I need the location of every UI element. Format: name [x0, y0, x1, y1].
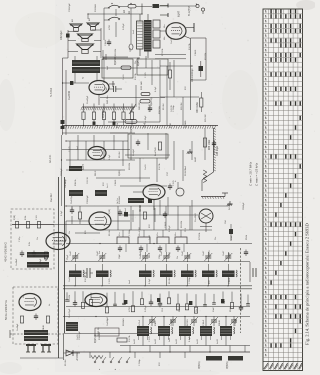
svg-text:C1540pF: C1540pF: [69, 3, 71, 12]
svg-text:C 560p: C 560p: [189, 276, 191, 284]
svg-text:Tr: Tr: [82, 77, 85, 79]
wire AVC rail: [66, 306, 250, 308]
IF transformer T4b: [95, 190, 107, 196]
clutter y215: [118, 200, 197, 230]
label row1: [87, 95, 109, 104]
shield wall left: [59, 177, 65, 358]
wire verticals y206-230: [118, 206, 190, 230]
svg-text:6К4П: 6К4П: [229, 252, 231, 258]
svg-text:C 125: C 125: [149, 336, 151, 342]
svg-text:Cω: Cω: [196, 308, 198, 312]
svg-text:P(W.K): P(W.K): [198, 361, 201, 369]
resistor bank: [82, 104, 134, 126]
svg-text:S-7244: S-7244: [49, 88, 53, 97]
svg-text:4Ω: 4Ω: [89, 18, 91, 21]
chassis shield bar: [61, 126, 218, 129]
svg-text:C min = 10.7 MHz: C min = 10.7 MHz: [249, 161, 253, 186]
label CT2: [97, 250, 99, 256]
table row numbers: [265, 10, 267, 356]
svg-text:R 470k: R 470k: [189, 42, 191, 50]
svg-text:R7220k: R7220k: [199, 232, 201, 240]
label L12: [176, 338, 178, 344]
svg-text:R2215k: R2215k: [69, 294, 71, 302]
labels detector row: [107, 316, 237, 326]
trimmer capacitor CT2: [98, 252, 106, 262]
wire horizontals topmid: [103, 58, 199, 97]
svg-text:Cα10nF: Cα10nF: [16, 258, 18, 266]
converter shield enclosure: [11, 209, 54, 269]
svg-text:P(W): P(W): [14, 215, 16, 220]
IF coil L8: [69, 166, 82, 171]
labels band y180: [65, 176, 119, 214]
svg-text:R18 1k: R18 1k: [75, 178, 77, 186]
svg-text:R 470k: R 470k: [129, 334, 131, 342]
wire V4 cathode stubs: [160, 197, 168, 215]
trimmer capacitor CT5: [183, 252, 191, 262]
svg-text:Cω47: Cω47: [182, 250, 184, 256]
capacitor C33: [108, 86, 122, 92]
lower-left interior tint: [0, 200, 55, 360]
oscillator coil L11: [158, 317, 173, 346]
svg-text:Cω 05µF: Cω 05µF: [145, 115, 147, 124]
IF transformer T2: [96, 264, 111, 286]
svg-text:C1840: C1840: [165, 221, 167, 228]
antenna stand left: [26, 344, 36, 352]
loudspeaker LS4: [77, 44, 94, 54]
svg-text:P(W6.R): P(W6.R): [151, 97, 153, 106]
IF transformer T7: [222, 264, 237, 286]
fuse F1 2A: [120, 5, 152, 15]
output transformer winding a: [72, 60, 100, 66]
svg-text:R 470k: R 470k: [135, 72, 137, 80]
svg-text:C 560p: C 560p: [139, 358, 141, 366]
switch box A: [102, 59, 133, 78]
wire rectifier loop: [155, 38, 206, 110]
svg-text:R25 1W: R25 1W: [205, 114, 207, 122]
label fmax: [255, 162, 259, 186]
svg-text:0.05µF: 0.05µF: [145, 305, 147, 312]
svg-text:≈P100Ω: ≈P100Ω: [76, 352, 79, 361]
svg-text:R 470k: R 470k: [159, 162, 161, 170]
svg-text:R33 1kΩ: R33 1kΩ: [141, 81, 143, 90]
band coil staples: [117, 230, 187, 252]
wire verticals topmid: [104, 56, 183, 125]
small circle component: [173, 180, 184, 196]
svg-text:Cω 4σJ: Cω 4σJ: [50, 193, 53, 202]
labels converter box: [19, 236, 39, 246]
shield partition vertical: [201, 128, 228, 199]
label Gr-CF: [48, 154, 52, 163]
mains plug: [196, 4, 205, 15]
dashed antenna wire: [10, 330, 63, 338]
capacitor C47: [168, 184, 172, 191]
svg-text:P(W1.R): P(W1.R): [95, 334, 97, 343]
capacitor blob: [70, 81, 73, 85]
svg-text:R30 1MΩ: R30 1MΩ: [196, 102, 199, 113]
svg-text:C 125: C 125: [69, 146, 71, 152]
oscillator coil L12: [179, 317, 194, 346]
IF transformer T1: [69, 264, 84, 286]
svg-text:W1.R: W1.R: [95, 170, 97, 176]
svg-text:0.05µF: 0.05µF: [123, 23, 125, 30]
row2 trimmers: [148, 316, 238, 326]
tuning gang dashed boundary: [240, 248, 242, 333]
label V4: [139, 204, 142, 212]
svg-text:C 125: C 125: [109, 278, 111, 284]
ferrite rod winding upper: [24, 330, 48, 335]
svg-text:Cω125pF: Cω125pF: [71, 194, 73, 204]
svg-text:P(W2): P(W2): [169, 252, 171, 258]
ground mid: [187, 149, 193, 154]
svg-text:C 125: C 125: [173, 180, 175, 186]
loudspeaker LS3: [78, 34, 93, 42]
svg-text:Rω27kΩ: Rω27kΩ: [155, 147, 157, 156]
svg-text:R2215k: R2215k: [115, 48, 117, 56]
capacitor C35: [148, 106, 152, 113]
svg-text:R121kΩ: R121kΩ: [95, 4, 97, 12]
table plus marks: [271, 9, 300, 347]
signal table grid: [263, 9, 303, 371]
svg-text:0.1µF: 0.1µF: [109, 154, 111, 160]
label Tr retea: [188, 6, 191, 16]
svg-text:C930pF: C930pF: [61, 168, 63, 176]
wire row y206: [66, 205, 228, 207]
svg-text:C 125: C 125: [145, 72, 147, 78]
antenna shield enclosure: [13, 287, 58, 344]
detector diode D1: [64, 350, 81, 356]
label V1: [45, 255, 48, 261]
svg-text:R36 10kΩ: R36 10kΩ: [209, 139, 211, 150]
dark blobs under resistors: [93, 122, 116, 125]
antenna stand right: [41, 344, 51, 352]
svg-text:P(W.S): P(W.S): [226, 361, 229, 369]
svg-text:P(W.R): P(W.R): [131, 125, 133, 133]
oscillator coil L14: [220, 317, 235, 346]
svg-text:6К4П: 6К4П: [195, 156, 197, 162]
wire mid rail 2: [66, 261, 250, 263]
svg-text:Cω2µF: Cω2µF: [133, 148, 135, 156]
detector blobs: [124, 298, 224, 305]
svg-text:2×30: 2×30: [169, 122, 172, 128]
labels band y100: [139, 102, 207, 124]
svg-text:0.1µF: 0.1µF: [155, 86, 157, 92]
loudspeaker LS2: [87, 23, 99, 30]
wire row y230: [75, 230, 200, 233]
wire mid rail: [66, 243, 252, 245]
IF transformer T4a: [69, 190, 83, 196]
IF amp tube V2: [88, 147, 106, 160]
trimmer capacitor CT3: [141, 252, 149, 262]
potentiometer P1: [198, 356, 222, 369]
svg-text:Lm: Lm: [157, 125, 159, 128]
potentiometer P2: [226, 356, 243, 369]
svg-text:Cω: Cω: [37, 237, 39, 240]
wire tube V5 leads: [63, 81, 116, 105]
wire bottom rail: [66, 351, 250, 353]
potentiometer arrow: [129, 104, 136, 114]
label CT3: [140, 250, 142, 256]
label R30: [196, 102, 199, 113]
svg-text:C 560p: C 560p: [129, 228, 131, 236]
wire speaker frame: [68, 4, 142, 59]
tone control box: [128, 125, 168, 158]
svg-text:C 560p: C 560p: [173, 104, 175, 112]
wire frame bottom: [64, 334, 161, 361]
svg-text:Cω125pF: Cω125pF: [69, 308, 71, 318]
trimmer capacitor CT6: [204, 252, 212, 262]
RF tube V0: [19, 294, 41, 311]
svg-text:Cω: Cω: [69, 231, 71, 234]
wire row y122: [108, 121, 160, 123]
label 2A: [123, 10, 126, 13]
capacitor C64: [225, 219, 233, 241]
svg-text:R7220k: R7220k: [162, 48, 164, 56]
junction blobs left: [61, 120, 65, 129]
label S-P2636-G2: [4, 299, 8, 320]
svg-text:C1840: C1840: [115, 179, 117, 186]
resistor row converter: [12, 222, 54, 229]
clutter left mid: [69, 206, 87, 234]
resistor loop extra: [168, 62, 171, 90]
label LS1: [72, 18, 91, 22]
svg-text:R220kΩ: R220kΩ: [123, 318, 125, 326]
power transformer Tr1: [133, 4, 168, 59]
label CT5: [182, 250, 184, 256]
label L14: [217, 338, 219, 344]
svg-text:R41MΩ: R41MΩ: [229, 202, 231, 210]
svg-text:P(W2): P(W2): [119, 170, 121, 176]
wire bus B+ lower: [63, 288, 252, 290]
wire mains top bus: [168, 5, 196, 7]
svg-text:Cω47: Cω47: [140, 250, 142, 256]
svg-text:C10nF: C10nF: [203, 319, 205, 326]
oscillator coil L13: [200, 317, 215, 346]
label S-P2636-G: [4, 241, 8, 262]
svg-text:4Ω: 4Ω: [72, 19, 74, 22]
svg-text:4700: 4700: [109, 24, 111, 30]
coil block left: [66, 322, 78, 331]
zigzag resistor R38: [203, 170, 207, 183]
svg-text:Cω33: Cω33: [123, 74, 125, 80]
oscillator coil L10: [137, 317, 152, 346]
labels above staples: [119, 232, 177, 236]
resistor P(W6): [140, 97, 153, 106]
svg-text:R9 2k2: R9 2k2: [65, 359, 67, 366]
svg-text:C1540pF: C1540pF: [79, 331, 81, 340]
svg-text:Cω33: Cω33: [77, 334, 79, 340]
svg-text:C22 30: C22 30: [87, 176, 89, 184]
svg-text:4700: 4700: [139, 226, 141, 232]
osc coil La: [27, 252, 49, 258]
wire row y224: [12, 224, 110, 226]
wire out-tr taps: [75, 50, 103, 83]
svg-text:R 2k: R 2k: [29, 242, 31, 246]
resistor R36: [203, 138, 211, 150]
comb contact band: [81, 107, 135, 110]
label L10: [134, 338, 136, 344]
small value labels 2: [61, 38, 231, 366]
audio driver tube V4: [133, 185, 165, 211]
bottom clutter: [90, 346, 245, 359]
bottom switch contacts: [94, 357, 130, 370]
wire converter links: [54, 221, 130, 241]
label C44: [191, 68, 194, 82]
resistor R33: [141, 81, 150, 95]
label V2: [82, 164, 85, 170]
label CT4: [161, 250, 163, 256]
label fmin: [249, 161, 253, 186]
svg-text:0.1µF: 0.1µF: [61, 210, 63, 216]
svg-text:Cω47: Cω47: [161, 250, 163, 256]
svg-text:C930pF: C930pF: [243, 202, 245, 210]
wire row y215: [118, 214, 198, 216]
svg-text:R121kΩ: R121kΩ: [119, 196, 121, 204]
svg-text:2A: 2A: [128, 11, 131, 14]
svg-text:R9 2k2: R9 2k2: [169, 277, 171, 284]
svg-text:C1840: C1840: [229, 277, 231, 284]
svg-text:Gr-C.F.: Gr-C.F.: [48, 154, 52, 163]
wire mains verticals: [104, 8, 133, 50]
svg-text:C48 20µF: C48 20µF: [217, 145, 219, 156]
svg-text:R41MΩ: R41MΩ: [185, 120, 187, 128]
resistor P(W2R): [103, 109, 137, 124]
capacitor C32: [60, 30, 70, 40]
svg-text:6К4П: 6К4П: [82, 164, 85, 170]
svg-text:R28 56k: R28 56k: [159, 105, 161, 114]
svg-text:5W1.Rω: 5W1.Rω: [107, 95, 109, 104]
wire horizontals mid: [62, 133, 170, 186]
mains switch K1: [104, 5, 120, 20]
svg-text:4700: 4700: [129, 306, 131, 312]
zigzag bottom: [91, 355, 103, 358]
svg-text:Cω33: Cω33: [69, 276, 71, 282]
IF amp tube V3: [85, 294, 107, 307]
wire left drop: [63, 58, 69, 135]
label L11: [155, 338, 157, 344]
svg-text:5W0.1R: 5W0.1R: [139, 102, 141, 110]
svg-text:Fig. 2.14. Schema de principiu: Fig. 2.14. Schema de principiu a radiore…: [305, 223, 310, 345]
resistor P(W.R2): [115, 56, 140, 69]
svg-text:R29 1M: R29 1M: [181, 102, 183, 110]
svg-text:Cω33: Cω33: [171, 38, 173, 44]
svg-text:R7220k: R7220k: [179, 304, 181, 312]
label S-7244: [49, 88, 53, 97]
label 6C4P: [178, 11, 181, 17]
svg-text:Cω47pF: Cω47pF: [87, 95, 89, 104]
svg-text:Cω 05: Cω 05: [65, 181, 67, 188]
svg-text:R21470: R21470: [209, 250, 211, 258]
svg-text:Cω-1MΩ: Cω-1MΩ: [195, 213, 197, 222]
svg-text:6Ц4П: 6Ц4П: [178, 11, 181, 17]
svg-text:R121kΩ: R121kΩ: [99, 332, 101, 340]
audio output tube V5: [89, 81, 109, 95]
wire bottom left rail: [20, 357, 63, 359]
svg-text:Gr.Cω: Gr.Cω: [116, 198, 119, 204]
svg-text:0.1µF: 0.1µF: [189, 336, 191, 342]
svg-text:R2215k: R2215k: [129, 162, 131, 170]
svg-text:Cω100pF: Cω100pF: [107, 316, 109, 326]
svg-text:10nF: 10nF: [106, 86, 108, 92]
staple labels: [119, 253, 179, 259]
svg-text:Л2×80: Л2×80: [139, 204, 142, 212]
svg-text:W1.R: W1.R: [149, 252, 151, 258]
svg-text:Cω33: Cω33: [145, 164, 147, 170]
resistor R30: [200, 92, 203, 112]
switch box bottom: [95, 327, 119, 336]
svg-text:R9 2k2: R9 2k2: [119, 151, 121, 158]
ferrite rod winding lower: [24, 336, 48, 341]
label CT6: [203, 250, 205, 256]
resistor bottom P: [95, 334, 127, 343]
label Tr2: [82, 77, 85, 79]
wire row y345: [120, 345, 250, 347]
wire row y97: [100, 60, 165, 98]
svg-text:Tr-E(T)V: Tr-E(T)V: [188, 6, 191, 16]
trimmer capacitor CT1: [71, 252, 79, 262]
svg-text:Cα10pF: Cα10pF: [17, 323, 19, 331]
svg-text:Cω4700: Cω4700: [68, 90, 71, 100]
small value labels: [61, 3, 248, 340]
figure caption: [305, 223, 310, 345]
svg-text:50 G-V2637 G: 50 G-V2637 G: [4, 299, 8, 320]
capacitor C44 1000pF: [199, 61, 204, 77]
svg-text:C47nF: C47nF: [139, 319, 141, 326]
wire verticals mid: [62, 128, 215, 206]
wire row y316: [63, 316, 250, 318]
IF transformer T3: [139, 264, 154, 286]
svg-text:R9 2k2: R9 2k2: [109, 229, 111, 236]
label CT1: [70, 250, 72, 256]
svg-text:C5pF: C5pF: [67, 254, 69, 260]
svg-text:C1840: C1840: [195, 49, 197, 56]
svg-text:C1540pF: C1540pF: [87, 195, 89, 204]
magic eye tube V7: [199, 209, 213, 232]
schematic interior tint: [55, 0, 260, 372]
IF transformer T4: [160, 264, 175, 286]
antenna components: [17, 314, 50, 332]
svg-text:Cω: Cω: [177, 256, 179, 259]
label CT7: [223, 250, 225, 256]
svg-text:Cω47: Cω47: [223, 250, 225, 256]
svg-text:R2215k: R2215k: [181, 220, 183, 228]
svg-text:10nF: 10nF: [213, 306, 215, 312]
svg-text:Cω: Cω: [215, 236, 217, 240]
right column parts: [244, 250, 256, 283]
svg-text:49 G-V2636 G: 49 G-V2636 G: [4, 241, 8, 262]
svg-text:R9 2k2: R9 2k2: [163, 103, 165, 110]
ground near magic eye: [227, 201, 233, 206]
svg-text:R470Ω: R470Ω: [187, 319, 189, 326]
svg-text:P(W5.R): P(W5.R): [138, 57, 140, 66]
label P100: [76, 352, 79, 361]
svg-text:P(W1.R): P(W1.R): [115, 56, 117, 65]
svg-text:C1840: C1840: [105, 39, 107, 46]
trimmer bars mid: [84, 268, 93, 278]
svg-text:R2MΩ: R2MΩ: [219, 320, 221, 326]
capacitor C48: [212, 141, 219, 157]
trimmer capacitor CT7: [224, 252, 232, 262]
svg-text:C32 2µF: C32 2µF: [60, 30, 63, 40]
svg-text:R1kΩ: R1kΩ: [155, 320, 157, 326]
table header diagonal labels: [264, 363, 303, 370]
fuse F2: [153, 4, 169, 8]
svg-text:Cω47: Cω47: [203, 250, 205, 256]
mixer tube V1b: [89, 212, 111, 230]
svg-text:R 470k: R 470k: [85, 274, 87, 282]
svg-text:P(W): P(W): [109, 209, 111, 214]
svg-text:0.1µF: 0.1µF: [149, 278, 151, 284]
switch box B: [137, 59, 168, 75]
